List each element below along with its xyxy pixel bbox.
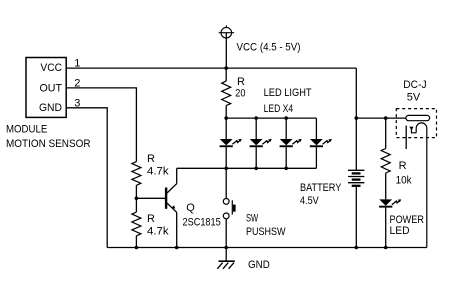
svg-text:10k: 10k [396,175,412,187]
svg-text:MODULE: MODULE [6,124,47,136]
svg-text:VCC: VCC [40,62,62,74]
svg-text:R: R [147,213,155,225]
svg-text:R: R [399,160,407,172]
resistor R 20 [222,81,231,106]
connector J1 DC jack [396,109,436,248]
svg-text:R: R [237,76,245,88]
svg-text:PUSHSW: PUSHSW [246,226,286,238]
node R10k tap [384,116,388,120]
svg-text:LED: LED [390,225,410,237]
node base junction [135,197,139,201]
node cathode bus junctions [224,167,228,171]
module U1 MODULE MOTION SENSOR [6,58,91,151]
svg-text:VCC (4.5 - 5V): VCC (4.5 - 5V) [237,42,301,54]
svg-text:LED X4: LED X4 [264,103,294,115]
LED D4 [310,118,332,168]
wire pin2 OUT to R upper [66,88,136,162]
wire R10k leads [385,118,387,199]
svg-text:4.5V: 4.5V [300,195,319,207]
node rail/R20 junction [224,66,228,70]
battery BT1 [348,68,364,247]
svg-text:Q: Q [186,202,195,214]
LED D2 [250,118,272,168]
svg-text:LED LIGHT: LED LIGHT [264,87,312,99]
svg-text:5V: 5V [407,92,421,104]
LED D3 [280,118,302,168]
LED D1 [220,118,242,168]
wire LED cathode bus to collector [177,167,317,169]
svg-text:4.7k: 4.7k [147,165,169,177]
wire pin3 GND down to bottom rail [66,108,107,248]
svg-text:BATTERY: BATTERY [300,182,342,194]
resistor R 4.7k lower [132,212,141,236]
wire R upper to base node [135,185,137,198]
svg-text:20: 20 [235,87,245,99]
resistor R 10k [381,149,390,174]
node battery tap [355,116,359,120]
resistor R 4.7k upper [132,162,141,186]
svg-text:SW: SW [246,212,259,224]
node bus junctions [224,116,228,120]
svg-text:OUT: OUT [40,82,63,94]
wire collector [176,168,178,183]
wire battery tap to DC jack [356,117,406,119]
svg-text:4.7k: 4.7k [147,225,169,237]
svg-text:MOTION SENSOR: MOTION SENSOR [6,138,91,150]
svg-text:GND: GND [248,259,270,271]
wire LED anode bus [226,117,316,119]
node rail junctions [135,246,139,250]
transistor Q1 2SC1815 [166,184,177,213]
wire R20 leads [225,68,227,118]
wire emitter [176,212,178,247]
svg-text:GND: GND [39,102,62,114]
LED D5 POWER LED [379,199,401,247]
switch SW PUSHSW [223,168,235,247]
wire bottom rail [107,247,427,249]
ground [217,248,235,269]
wire base [136,197,165,199]
wire VCC rail pin1 to battery [66,67,356,69]
svg-text:2SC1815: 2SC1815 [183,217,221,229]
wire R lower leads [135,198,137,247]
svg-text:R: R [147,153,155,165]
svg-text:DC-J: DC-J [403,79,426,91]
power symbol VCC [219,25,234,68]
